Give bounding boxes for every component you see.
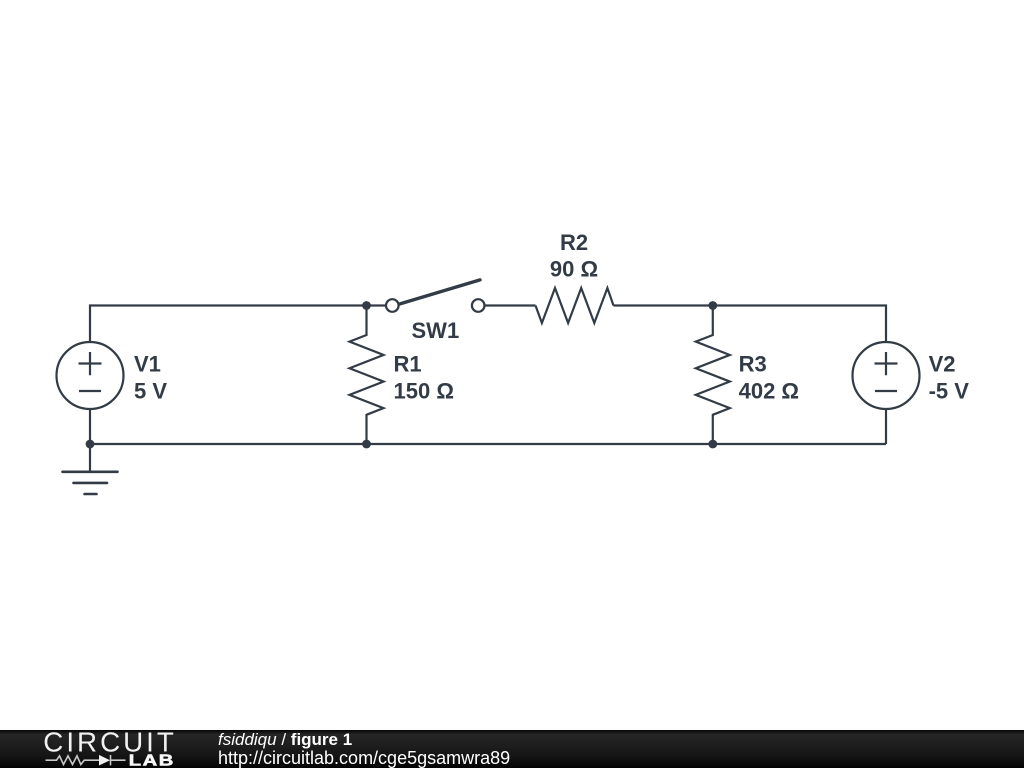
wire: SW1 right terminal to R2	[485, 304, 536, 306]
resistor R2	[536, 288, 614, 323]
junction node (R3 top)	[708, 301, 717, 310]
footer line 1: fsiddiqu / figure 1	[218, 731, 352, 748]
voltage source V2 circle	[853, 342, 920, 409]
ground stem	[89, 444, 91, 472]
switch SW1 left terminal circle	[386, 299, 399, 312]
V2 minus sign	[875, 390, 897, 392]
junction node (R3 bottom)	[708, 440, 717, 449]
voltage source V1 circle	[57, 342, 124, 409]
junction node (R1 bottom)	[362, 440, 371, 449]
logo word LAB	[129, 752, 175, 768]
footer bar	[0, 730, 1024, 768]
logo resistor-diode glyph	[46, 755, 126, 765]
switch SW1 right terminal circle	[472, 299, 485, 312]
junction node A (R1 top)	[362, 301, 371, 310]
footer line 2: url	[218, 749, 510, 767]
switch SW1 blade	[397, 280, 480, 305]
logo diode triangle	[99, 755, 110, 766]
V2 plus sign	[875, 352, 898, 375]
junction node (V1 bottom / ground)	[86, 440, 95, 449]
wire: V1 bottom to bottom rail	[89, 409, 91, 444]
resistor R3	[696, 306, 730, 445]
svg-text:LAB: LAB	[129, 752, 175, 768]
V1 minus sign	[79, 390, 101, 392]
resistor R1	[350, 306, 384, 445]
V1 plus sign	[79, 352, 102, 375]
wire top-left: V1 top to node A	[90, 306, 386, 343]
wire: bottom rail	[90, 443, 886, 445]
ground bars	[63, 472, 118, 494]
wire: V2 bottom to bottom rail	[885, 409, 887, 444]
wire: R2 right to top-right corner down to V2	[614, 306, 887, 343]
